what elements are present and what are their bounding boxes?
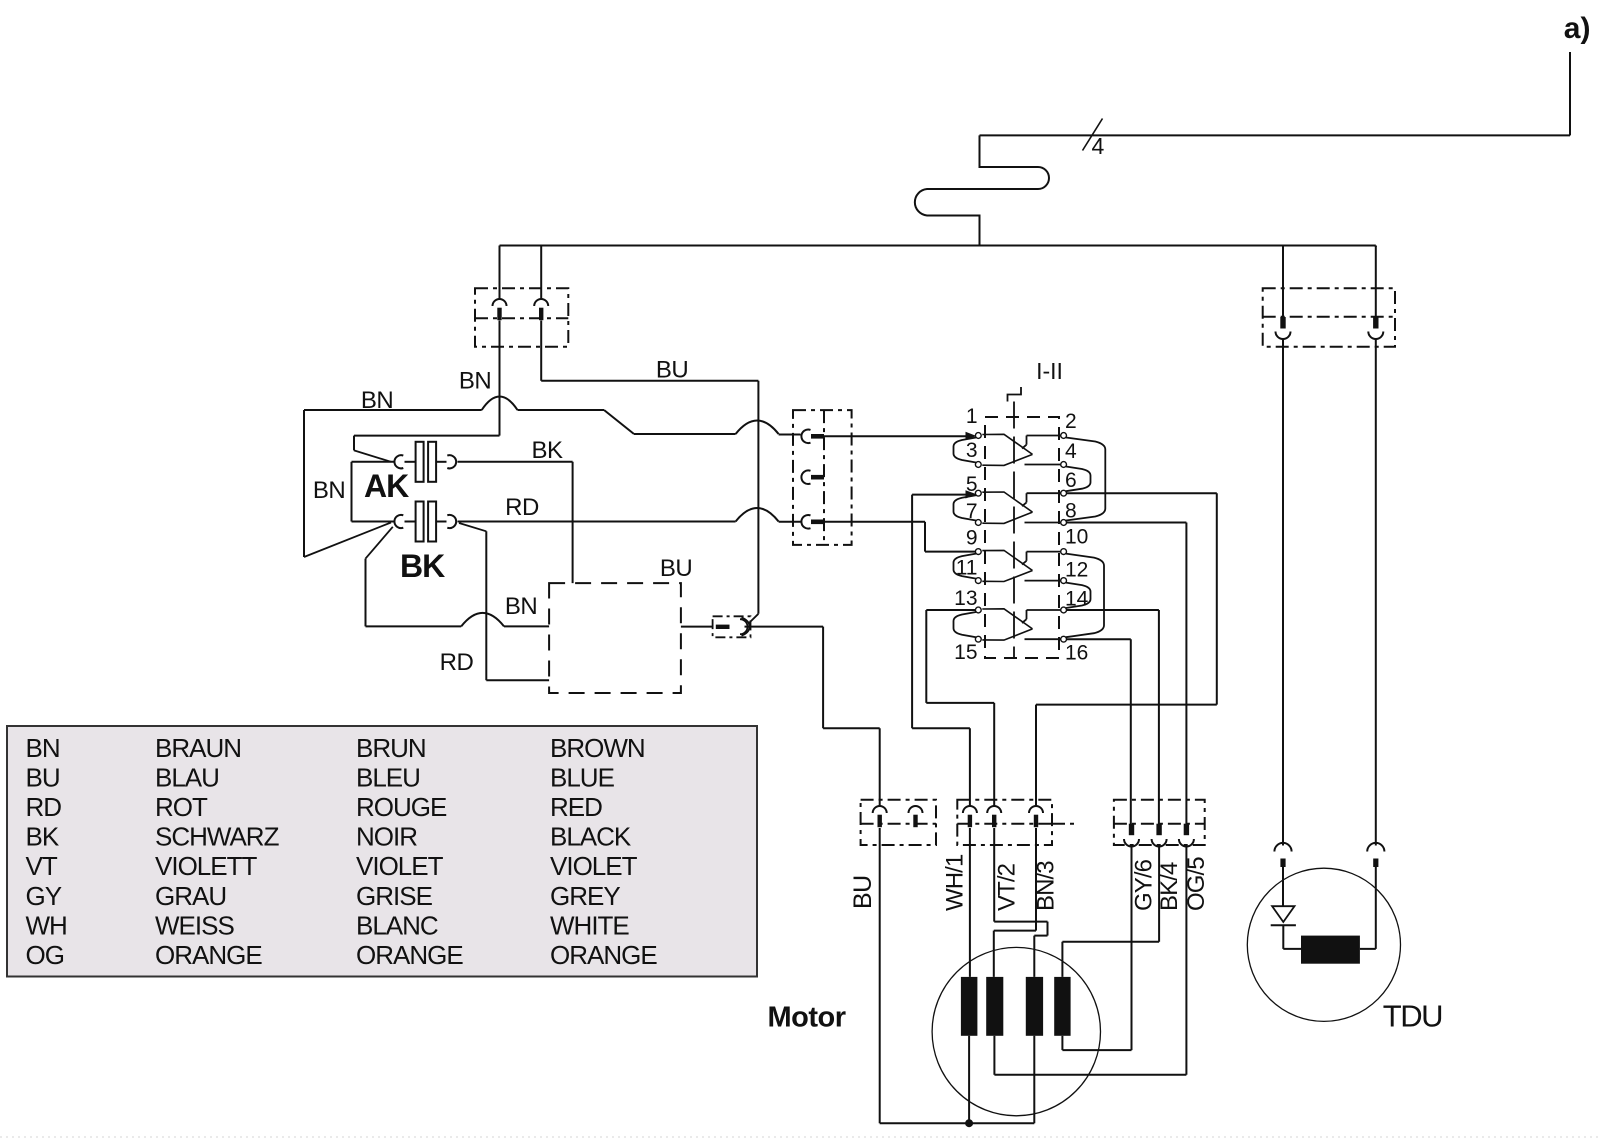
svg-text:BLAU: BLAU	[155, 763, 219, 793]
svg-text:TDU: TDU	[1383, 999, 1442, 1034]
svg-text:WH/1: WH/1	[942, 854, 969, 911]
svg-text:BN: BN	[505, 593, 537, 620]
svg-text:BLUE: BLUE	[550, 763, 615, 793]
svg-text:a): a)	[1564, 12, 1591, 45]
svg-text:ORANGE: ORANGE	[550, 940, 657, 970]
svg-text:ROUGE: ROUGE	[356, 792, 447, 822]
svg-text:BLANC: BLANC	[356, 910, 438, 940]
svg-text:BK: BK	[531, 437, 563, 464]
svg-text:BU: BU	[660, 555, 692, 582]
svg-text:GY: GY	[26, 881, 62, 911]
svg-text:RD: RD	[26, 792, 62, 822]
svg-text:12: 12	[1065, 559, 1088, 582]
svg-text:BU: BU	[849, 875, 877, 909]
svg-text:WHITE: WHITE	[550, 910, 629, 940]
svg-text:GRAU: GRAU	[155, 881, 226, 911]
svg-text:BRAUN: BRAUN	[155, 733, 241, 763]
svg-text:13: 13	[954, 587, 977, 610]
svg-text:11: 11	[956, 557, 978, 580]
svg-text:14: 14	[1065, 588, 1089, 611]
svg-text:8: 8	[1065, 499, 1077, 522]
svg-text:VIOLET: VIOLET	[550, 851, 638, 881]
svg-text:2: 2	[1065, 410, 1077, 433]
svg-text:Motor: Motor	[768, 1002, 846, 1034]
svg-text:VT: VT	[26, 851, 58, 881]
svg-text:ORANGE: ORANGE	[155, 940, 262, 970]
svg-text:WEISS: WEISS	[155, 910, 234, 940]
svg-text:WH: WH	[26, 910, 67, 940]
svg-text:BN: BN	[361, 387, 393, 414]
svg-text:BU: BU	[656, 357, 688, 384]
svg-text:15: 15	[954, 641, 977, 664]
svg-text:4: 4	[1092, 133, 1105, 159]
svg-text:16: 16	[1065, 642, 1088, 665]
svg-text:BN: BN	[459, 368, 491, 395]
svg-text:ORANGE: ORANGE	[356, 940, 463, 970]
svg-text:9: 9	[966, 527, 978, 550]
svg-text:GRISE: GRISE	[356, 881, 433, 911]
svg-text:AK: AK	[364, 468, 409, 504]
svg-text:10: 10	[1065, 526, 1088, 549]
svg-text:BRUN: BRUN	[356, 733, 426, 763]
svg-text:VIOLETT: VIOLETT	[155, 851, 257, 881]
svg-text:SCHWARZ: SCHWARZ	[155, 822, 280, 852]
svg-text:7: 7	[966, 500, 978, 523]
svg-text:OG: OG	[26, 940, 64, 970]
svg-text:VT/2: VT/2	[994, 863, 1021, 911]
svg-text:4: 4	[1065, 440, 1077, 463]
svg-text:3: 3	[966, 439, 978, 462]
svg-text:GREY: GREY	[550, 881, 620, 911]
svg-text:RD: RD	[505, 494, 539, 521]
svg-text:BROWN: BROWN	[550, 733, 645, 763]
svg-text:1: 1	[966, 405, 978, 428]
svg-text:I-II: I-II	[1036, 358, 1063, 384]
svg-text:VIOLET: VIOLET	[356, 851, 444, 881]
svg-text:BU: BU	[26, 763, 60, 793]
svg-text:5: 5	[966, 473, 978, 496]
svg-text:BK: BK	[400, 548, 445, 584]
svg-text:RD: RD	[440, 649, 474, 676]
svg-text:NOIR: NOIR	[356, 822, 417, 852]
svg-text:BK: BK	[26, 822, 60, 852]
svg-text:6: 6	[1065, 469, 1077, 492]
svg-text:BN: BN	[26, 733, 60, 763]
svg-text:BN: BN	[313, 477, 345, 504]
svg-text:BLACK: BLACK	[550, 822, 632, 852]
svg-text:BLEU: BLEU	[356, 763, 420, 793]
svg-text:GY/6: GY/6	[1131, 859, 1158, 911]
svg-text:ROT: ROT	[155, 792, 208, 822]
svg-text:RED: RED	[550, 792, 602, 822]
